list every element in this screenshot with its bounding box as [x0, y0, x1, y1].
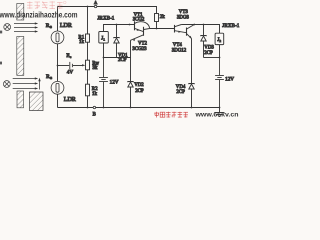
svg-text:VT3: VT3	[179, 10, 189, 15]
wire Ec left	[58, 65, 70, 67]
wire bottom bus	[58, 107, 220, 109]
battery 12V right	[215, 58, 224, 108]
relay coil J1	[99, 32, 109, 44]
light ray arrows bottom	[13, 77, 39, 89]
svg-text:JRXB-1: JRXB-1	[97, 16, 114, 22]
svg-text:3CG23: 3CG23	[132, 47, 147, 52]
svg-text:3DG8: 3DG8	[177, 15, 190, 20]
wall bar bottom segment	[17, 91, 24, 108]
wire J2 bottom	[219, 45, 221, 58]
junction dot bus battery left	[103, 107, 105, 109]
svg-text:12V: 12V	[225, 76, 234, 82]
wire 2k bottom lead	[156, 22, 158, 29]
junction dot VD3 top	[203, 24, 205, 26]
transistor VT3	[175, 25, 187, 33]
ground	[215, 108, 225, 117]
svg-text:www.dianziaihaozhe.com: www.dianziaihaozhe.com	[0, 10, 78, 19]
watermark chinese bottom	[154, 112, 188, 118]
wire collector rail right	[181, 25, 219, 34]
resistor R1	[86, 34, 90, 42]
junction dot J2 bottom	[219, 57, 221, 59]
relay coil J2	[215, 33, 224, 44]
diode VD4	[189, 84, 194, 108]
diode VD2	[128, 82, 133, 108]
junction dot bus right end	[219, 107, 221, 109]
svg-text:VD2: VD2	[134, 83, 144, 88]
svg-text:www.66kv.cn: www.66kv.cn	[194, 111, 238, 118]
svg-text:LDR: LDR	[60, 23, 72, 29]
battery Ec	[70, 62, 73, 69]
svg-text:JRXB-1: JRXB-1	[222, 23, 239, 29]
junction dot Ec branch	[57, 65, 59, 67]
edge mark 2	[0, 62, 2, 65]
junction dot battery left	[103, 57, 105, 59]
moving shutter plate	[30, 92, 44, 111]
wire Rw to R2	[87, 70, 89, 84]
transistor VT4	[187, 25, 195, 39]
light ray arrows top	[14, 22, 38, 32]
svg-text:2CP: 2CP	[118, 58, 127, 63]
wall bar middle segment	[17, 37, 24, 76]
svg-text:2CP: 2CP	[135, 89, 144, 94]
svg-text:3CG2: 3CG2	[133, 18, 145, 23]
junction dot bus R2	[87, 107, 89, 109]
resistor R2	[86, 84, 90, 96]
node B terminal	[93, 106, 95, 108]
light source lamp 1	[4, 24, 11, 31]
wire collector node to VT3 base	[150, 28, 175, 30]
wall bar top segment	[17, 4, 24, 21]
svg-text:2CP: 2CP	[204, 51, 213, 56]
potentiometer Rw	[86, 60, 90, 70]
wire divider branch top	[87, 7, 89, 35]
watermark chinese top	[27, 1, 66, 9]
wire VT2 emitter down	[130, 40, 132, 81]
svg-text:VT2: VT2	[138, 42, 148, 47]
wire J1 bottom junction	[104, 57, 131, 59]
light source lamp 2	[3, 81, 10, 88]
wire LDR1 top lead	[57, 7, 59, 32]
wire R2 bottom	[87, 96, 89, 108]
shutter motion arrow up	[38, 78, 40, 90]
wire Ec to wiper arrow	[73, 65, 83, 67]
junction dot 2k bottom	[156, 28, 158, 30]
svg-text:3k: 3k	[92, 66, 98, 71]
diode VD3	[201, 25, 206, 58]
wire R1 to Rw	[87, 42, 89, 60]
svg-text:2CP: 2CP	[176, 90, 185, 95]
edge mark 1	[0, 31, 2, 34]
svg-text:4V: 4V	[67, 70, 74, 76]
photoresistor LDR2	[51, 81, 64, 94]
svg-text:12V: 12V	[110, 79, 119, 85]
svg-text:LDR: LDR	[64, 97, 76, 103]
junction dot VD1 top	[116, 24, 118, 26]
photoresistor LDR1	[51, 31, 64, 44]
wire relay J1 rail	[104, 25, 135, 32]
junction dot bus VD4	[191, 107, 193, 109]
wire J1 bottom	[103, 43, 105, 58]
junction dot VT4 collector	[193, 24, 195, 26]
diode VD1	[114, 25, 119, 58]
resistor 2k	[155, 14, 159, 22]
wire VT4 emitter down	[191, 39, 193, 84]
svg-text:1k: 1k	[92, 92, 98, 97]
junction dot bus VD2	[130, 107, 132, 109]
svg-text:VD3: VD3	[204, 46, 214, 51]
node A terminal	[94, 5, 96, 7]
wire LDR1 to LDR2	[57, 44, 59, 82]
svg-text:2k: 2k	[160, 15, 166, 20]
svg-text:3DG12: 3DG12	[172, 48, 187, 53]
wire top rail	[58, 7, 157, 14]
junction dot VT1 base wire	[129, 24, 131, 26]
svg-text:B: B	[93, 113, 96, 118]
wire VD3 to J2 join	[204, 57, 220, 59]
transistor VT2	[131, 27, 150, 42]
junction dot top rail R1 branch	[87, 6, 89, 8]
svg-text:J2: J2	[217, 38, 221, 43]
battery 12V left	[99, 58, 108, 108]
svg-text:1k: 1k	[79, 40, 85, 45]
wire LDR2 bottom	[57, 94, 59, 107]
transistor VT1	[135, 21, 150, 31]
svg-text:J1: J1	[101, 37, 105, 42]
